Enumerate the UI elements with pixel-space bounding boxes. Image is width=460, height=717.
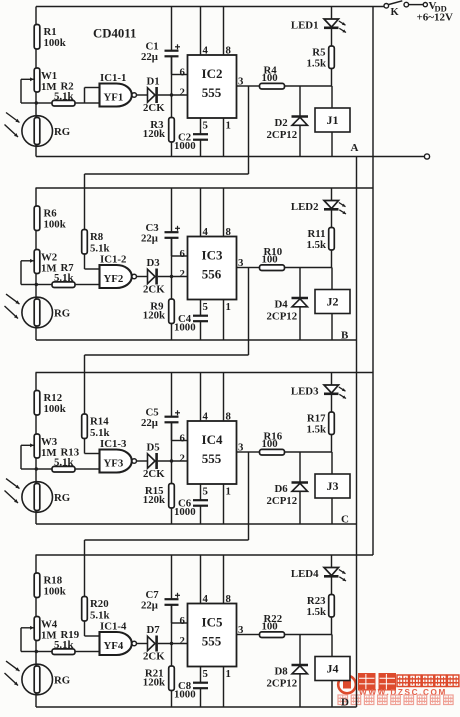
wire left column top [35, 7, 37, 26]
wire [35, 641, 37, 667]
diode D2 2CP12 [267, 86, 309, 157]
resistor R22 100 [249, 613, 332, 638]
capacitor C2 1000 [174, 132, 208, 157]
supply label +6~12V [417, 12, 453, 24]
svg-text:22μ: 22μ [141, 600, 158, 612]
wire [35, 274, 37, 300]
svg-text:5.1k: 5.1k [54, 90, 74, 102]
svg-text:120k: 120k [143, 494, 165, 506]
svg-text:22μ: 22μ [141, 51, 158, 63]
resistor R20 [82, 540, 110, 636]
svg-text:555: 555 [202, 85, 222, 100]
node D [341, 697, 349, 709]
svg-text:1000: 1000 [174, 506, 196, 518]
svg-text:K: K [391, 7, 400, 18]
svg-text:2CK: 2CK [143, 468, 165, 480]
IC3 pin 5 [201, 300, 208, 316]
IC3 pin 6 [180, 248, 186, 260]
photoresistor RG [5, 294, 71, 328]
svg-text:4: 4 [203, 226, 209, 238]
svg-text:IC5: IC5 [202, 615, 223, 630]
IC5 pin 5 [201, 667, 208, 683]
svg-text:8: 8 [226, 593, 232, 605]
wire cascade to section 2 [85, 86, 249, 174]
svg-text:6: 6 [180, 615, 186, 627]
IC2 pin 5 [201, 118, 208, 134]
IC3 pin 2 [180, 268, 185, 280]
relay J1 [315, 86, 350, 157]
svg-text:CD4011: CD4011 [93, 27, 136, 41]
node C [341, 514, 349, 526]
wire pin6 stub [172, 238, 188, 277]
LED LED3 [291, 373, 346, 413]
wire pin3 output [237, 634, 249, 636]
svg-text:1.5k: 1.5k [306, 606, 326, 618]
svg-text:1: 1 [226, 486, 231, 498]
junction [170, 642, 173, 645]
IC5 pin 3 [238, 624, 244, 636]
resistor R13 [36, 446, 85, 472]
svg-text:100: 100 [262, 438, 278, 450]
svg-text:2CK: 2CK [143, 102, 165, 114]
svg-text:D1: D1 [147, 75, 160, 87]
svg-text:5: 5 [203, 668, 208, 680]
terminal VDD [423, 0, 447, 14]
resistor R3 120k [143, 118, 175, 157]
watermark logo [338, 676, 356, 694]
potentiometer W2 [21, 250, 57, 285]
svg-text:6: 6 [180, 248, 186, 260]
wire pin6 stub [172, 422, 188, 461]
svg-text:D7: D7 [147, 624, 161, 636]
svg-text:2CP12: 2CP12 [267, 129, 298, 141]
svg-text:B: B [341, 330, 349, 342]
IC2 pin 4 [201, 7, 209, 57]
capacitor C1 22μ [141, 7, 180, 75]
wire [35, 49, 37, 68]
svg-text:2: 2 [180, 268, 185, 280]
IC2 pin 6 [180, 66, 186, 78]
resistor R7 [36, 262, 85, 288]
resistor R9 120k [143, 299, 175, 340]
wire [35, 231, 37, 250]
resistor R8 [82, 174, 110, 269]
wire [158, 94, 188, 96]
svg-text:1.5k: 1.5k [306, 239, 326, 251]
wire section 2 ground rail [36, 339, 357, 341]
junction [170, 459, 173, 462]
photoresistor RG [5, 113, 71, 147]
IC3 pin 1 [224, 300, 231, 341]
IC2 pin 8 [224, 7, 232, 57]
diode D5 2CK [143, 441, 165, 480]
wire cascade to section 4 [85, 452, 249, 540]
resistor R2 [36, 80, 85, 106]
wire pin6 stub [172, 605, 188, 644]
wire gate lower input [85, 468, 100, 470]
svg-text:D8: D8 [275, 666, 289, 678]
svg-text:1.5k: 1.5k [306, 424, 326, 436]
resistor R5 1.5k [306, 46, 334, 86]
svg-text:IC1-1: IC1-1 [100, 72, 126, 84]
svg-text:2: 2 [180, 452, 185, 464]
svg-text:8: 8 [226, 45, 232, 57]
wire [158, 460, 188, 462]
wire [171, 95, 173, 118]
junction [170, 275, 173, 278]
svg-text:5.1k: 5.1k [54, 272, 74, 284]
NAND gate IC1-3 (YF3) [100, 438, 137, 473]
IC type label CD4011 [93, 27, 136, 41]
wire [171, 644, 173, 667]
wire [35, 326, 37, 340]
capacitor C5 22μ [141, 373, 180, 441]
wire gate lower input [85, 651, 100, 653]
svg-text:120k: 120k [143, 676, 165, 688]
wire gate lower input [85, 284, 100, 286]
NAND gate IC1-1 (YF1) [100, 72, 137, 107]
watermark url www.dzsc.com [359, 688, 447, 697]
svg-text:LED4: LED4 [291, 568, 319, 580]
wire [35, 598, 37, 617]
svg-text:120k: 120k [143, 128, 165, 140]
wire gate output [137, 460, 148, 462]
diode D4 2CP12 [267, 268, 309, 341]
wire left column top [35, 373, 37, 392]
IC IC2 555 timer [188, 55, 237, 118]
svg-text:1000: 1000 [174, 140, 196, 152]
wire [171, 461, 173, 484]
svg-text:555: 555 [202, 634, 222, 649]
IC4 pin 8 [224, 373, 232, 423]
resistor R16 100 [249, 431, 332, 456]
svg-text:YF3: YF3 [104, 458, 124, 470]
wire ground chain bus [356, 157, 358, 708]
IC3 pin 4 [201, 188, 209, 238]
wire pin3 output [237, 85, 249, 87]
LED LED2 [291, 188, 346, 228]
svg-text:LED1: LED1 [291, 19, 319, 31]
svg-text:556: 556 [202, 267, 222, 282]
LED LED1 [291, 7, 346, 47]
IC2 pin 3 [238, 76, 244, 88]
svg-text:6: 6 [180, 66, 186, 78]
resistor R6 [34, 206, 66, 231]
potentiometer W4 [21, 617, 58, 652]
photoresistor RG [5, 479, 71, 513]
svg-text:YF1: YF1 [104, 92, 124, 104]
junction wiper node [35, 650, 38, 653]
wire [171, 277, 173, 300]
capacitor C7 22μ [141, 555, 180, 623]
switch K [384, 1, 409, 18]
capacitor C6 1000 [174, 498, 208, 525]
svg-text:D: D [341, 697, 349, 709]
wire [35, 145, 37, 157]
svg-text:4: 4 [203, 45, 209, 57]
svg-text:2CK: 2CK [143, 651, 165, 663]
resistor R15 120k [143, 484, 175, 525]
diode D7 2CK [143, 624, 165, 663]
resistor R14 [82, 355, 110, 454]
NAND gate IC1-4 (YF4) [100, 621, 137, 656]
junction wiper node [35, 283, 38, 286]
IC5 pin 6 [180, 615, 186, 627]
relay J2 [315, 268, 350, 341]
resistor R18 [34, 573, 66, 598]
photoresistor RG [5, 661, 71, 695]
wire left column top [35, 555, 37, 574]
svg-text:100k: 100k [44, 37, 66, 49]
svg-text:IC3: IC3 [202, 248, 223, 263]
resistor R17 1.5k [306, 412, 334, 452]
resistor R23 1.5k [306, 595, 334, 635]
svg-text:R14: R14 [90, 416, 109, 428]
wire [35, 458, 37, 484]
svg-text:4: 4 [203, 593, 209, 605]
resistor R12 [34, 391, 66, 416]
svg-text:555: 555 [202, 451, 222, 466]
IC3 pin 3 [238, 257, 244, 269]
junction wiper node [35, 101, 38, 104]
resistor R1 [34, 25, 66, 50]
resistor R11 1.5k [306, 228, 334, 268]
svg-text:J1: J1 [327, 113, 339, 127]
relay J4 [315, 635, 350, 708]
node A [351, 142, 359, 154]
svg-text:1: 1 [226, 301, 231, 313]
wire left column top [35, 188, 37, 207]
svg-text:1000: 1000 [174, 321, 196, 333]
svg-text:5: 5 [203, 120, 208, 132]
svg-text:+6~12V: +6~12V [417, 12, 453, 24]
IC4 pin 1 [224, 484, 231, 524]
watermark text 电子市场网 [397, 675, 459, 687]
NAND gate IC1-2 (YF2) [100, 254, 137, 289]
svg-text:22μ: 22μ [141, 233, 158, 245]
watermark text 维库 [358, 673, 396, 691]
svg-text:100: 100 [262, 254, 278, 266]
svg-text:100k: 100k [44, 586, 66, 598]
wire cascade to section 3 [85, 268, 249, 356]
svg-text:IC4: IC4 [202, 432, 223, 447]
resistor R21 120k [143, 666, 175, 707]
diode D6 2CP12 [267, 452, 309, 524]
IC5 pin 8 [224, 555, 232, 605]
svg-text:J3: J3 [327, 479, 339, 493]
svg-text:RG: RG [54, 492, 71, 504]
IC4 pin 2 [180, 452, 185, 464]
svg-text:22μ: 22μ [141, 417, 158, 429]
svg-text:5.1k: 5.1k [54, 639, 74, 651]
IC4 pin 5 [201, 484, 208, 500]
wire [35, 92, 37, 118]
wire [158, 643, 188, 645]
svg-text:D2: D2 [275, 117, 288, 129]
IC4 pin 3 [238, 442, 244, 454]
wire [158, 276, 188, 278]
svg-text:1: 1 [226, 120, 231, 132]
IC IC5 555 timer [188, 604, 237, 667]
node B [341, 330, 349, 342]
wire [35, 693, 37, 707]
wire gate output [137, 94, 148, 96]
IC4 pin 6 [180, 432, 186, 444]
wire pin6 stub [172, 56, 188, 95]
svg-text:RG: RG [54, 126, 71, 138]
wire section 1 ground rail [36, 156, 425, 158]
svg-text:2CP12: 2CP12 [267, 495, 298, 507]
svg-text:100k: 100k [44, 219, 66, 231]
svg-text:D6: D6 [275, 483, 289, 495]
IC2 pin 2 [180, 86, 185, 98]
IC2 pin 1 [224, 118, 231, 157]
wire [409, 4, 424, 6]
svg-text:YF4: YF4 [104, 640, 124, 652]
svg-text:8: 8 [226, 411, 232, 423]
wire [35, 415, 37, 434]
wire section 4 supply rail [36, 554, 374, 556]
wire pin3 output [237, 451, 249, 453]
svg-text:4: 4 [203, 411, 209, 423]
svg-text:5: 5 [203, 486, 208, 498]
diode D3 2CK [143, 257, 165, 296]
svg-text:100: 100 [262, 621, 278, 633]
svg-text:LED2: LED2 [291, 201, 319, 213]
terminal output A [424, 154, 429, 159]
svg-text:2CP12: 2CP12 [267, 311, 298, 323]
wire pin3 output [237, 267, 249, 269]
svg-text:2CK: 2CK [143, 284, 165, 296]
capacitor C4 1000 [174, 313, 208, 340]
IC IC4 555 timer [188, 421, 237, 484]
svg-text:A: A [351, 142, 359, 154]
svg-text:LED3: LED3 [291, 385, 319, 397]
resistor R19 [36, 629, 85, 655]
svg-text:D4: D4 [275, 299, 289, 311]
junction wiper node [35, 467, 38, 470]
capacitor C3 22μ [141, 188, 180, 256]
watermark text 全球最大IC采购网站 [338, 695, 453, 705]
svg-text:IC1-2: IC1-2 [100, 254, 126, 266]
IC3 pin 8 [224, 188, 232, 238]
wire section 2 supply rail [36, 187, 374, 189]
wire VDD bus [372, 7, 374, 556]
potentiometer W3 [21, 434, 58, 469]
svg-text:WWW.DZSC.COM: WWW.DZSC.COM [359, 688, 447, 697]
svg-text:2CP12: 2CP12 [267, 678, 298, 690]
potentiometer W1 [21, 68, 57, 103]
LED LED4 [291, 555, 346, 595]
svg-text:100: 100 [262, 72, 278, 84]
wire gate output [137, 276, 148, 278]
svg-text:6: 6 [180, 432, 186, 444]
svg-text:R8: R8 [90, 231, 104, 243]
junction [170, 93, 173, 96]
IC5 pin 4 [201, 555, 209, 605]
wire section 3 ground rail [36, 523, 357, 525]
wire section 3 supply rail [36, 372, 374, 374]
wire section 4 ground rail [36, 706, 357, 708]
wire gate output [137, 643, 148, 645]
IC4 pin 4 [201, 373, 209, 423]
IC IC3 556 timer [188, 237, 237, 300]
wire [35, 511, 37, 525]
svg-text:IC1-3: IC1-3 [100, 438, 127, 450]
svg-text:100k: 100k [44, 403, 66, 415]
relay J3 [315, 452, 350, 524]
svg-text:C: C [341, 514, 349, 526]
svg-text:J4: J4 [327, 662, 339, 676]
resistor R10 100 [249, 246, 332, 271]
diode D8 2CP12 [267, 635, 309, 708]
svg-text:5.1k: 5.1k [54, 456, 74, 468]
svg-text:8: 8 [226, 226, 232, 238]
svg-text:IC1-4: IC1-4 [100, 621, 127, 633]
svg-text:YF2: YF2 [104, 273, 124, 285]
svg-text:120k: 120k [143, 309, 165, 321]
svg-text:D3: D3 [147, 257, 161, 269]
svg-text:RG: RG [54, 675, 71, 687]
IC5 pin 1 [224, 667, 231, 708]
svg-text:D5: D5 [147, 441, 160, 453]
svg-text:2: 2 [180, 635, 185, 647]
svg-text:5: 5 [203, 301, 208, 313]
svg-text:RG: RG [54, 308, 71, 320]
svg-text:1.5k: 1.5k [306, 58, 326, 70]
svg-text:1000: 1000 [174, 688, 196, 700]
resistor R4 100 [249, 65, 332, 90]
diode D1 2CK [143, 75, 165, 114]
svg-text:2: 2 [180, 86, 185, 98]
wire gate input bridge [85, 88, 100, 104]
wire VDD top rail [36, 6, 384, 8]
IC5 pin 2 [180, 635, 185, 647]
svg-text:J2: J2 [327, 295, 339, 309]
capacitor C8 1000 [174, 680, 208, 707]
svg-text:1: 1 [226, 668, 231, 680]
svg-text:R20: R20 [90, 598, 109, 610]
svg-text:IC2: IC2 [202, 66, 223, 81]
